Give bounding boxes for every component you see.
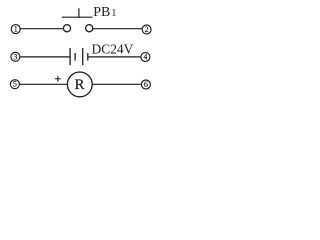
svg-text:4: 4 [143,53,147,62]
wire [88,56,141,58]
svg-text:2: 2 [145,25,149,34]
svg-text:+: + [55,73,62,85]
svg-text:1: 1 [14,25,18,34]
wire [20,56,70,58]
wire [93,28,142,30]
svg-text:3: 3 [13,52,17,61]
terminal 3 [11,52,20,61]
svg-text:R: R [74,77,84,93]
battery DC24V [70,48,88,65]
svg-text:PB1: PB1 [93,5,116,20]
terminal 6 [141,80,150,89]
terminal 5 [10,80,19,89]
pushbutton PB1 [62,8,93,32]
wire [92,83,141,85]
svg-text:5: 5 [13,80,17,89]
svg-text:6: 6 [144,80,148,89]
terminal 4 [141,53,150,62]
wire [20,28,63,30]
svg-text:DC24V: DC24V [92,41,134,56]
terminal 2 [142,25,151,34]
wire [19,83,68,85]
motor R [67,72,92,97]
terminal 1 [11,25,20,34]
